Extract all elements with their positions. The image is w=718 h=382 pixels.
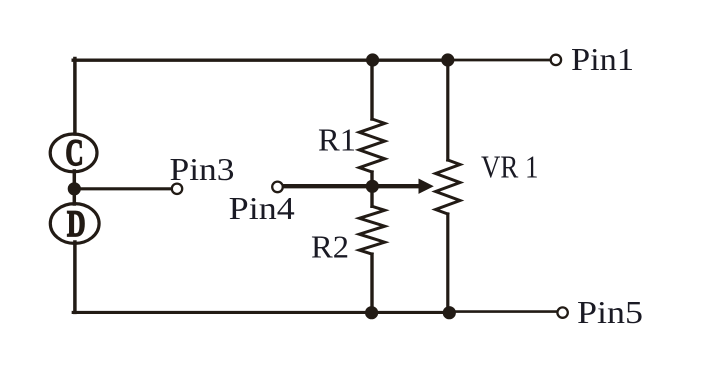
wire: Pin4 wiper lead with arrow toward VR1 bbox=[284, 184, 420, 188]
transistor element D (ellipse with letter D) bbox=[50, 204, 99, 244]
terminal: Pin4 open circle bbox=[272, 182, 283, 193]
node: bottom rail dot at R2 column bbox=[365, 306, 378, 319]
wire: R1 top lead bbox=[370, 59, 373, 120]
wire: R2 bottom lead to bottom rail bbox=[370, 254, 373, 312]
svg-text:R1: R1 bbox=[318, 121, 356, 157]
svg-text:D: D bbox=[67, 204, 86, 245]
wire: bottom rail left section (corner to VR1 node) bbox=[73, 311, 449, 314]
svg-text:Pin3: Pin3 bbox=[170, 151, 235, 187]
potentiometer VR1 zigzag bbox=[436, 160, 460, 214]
node: junction dot between C and D / Pin3 tap bbox=[68, 182, 81, 195]
wire: Pin3 lead from junction to Pin3 terminal bbox=[74, 187, 171, 190]
wire: top rail right section (VR1 node to Pin1 terminal) bbox=[448, 59, 550, 62]
wire: VR1 top lead bbox=[446, 59, 449, 161]
wire: VR1 bottom lead to bottom rail bbox=[446, 214, 449, 312]
wire: left side lower segment (D down to bottom corner) bbox=[73, 242, 77, 312]
terminal: Pin3 open circle bbox=[172, 184, 182, 194]
wire: segment between C and D through junction bbox=[73, 171, 77, 204]
terminal: Pin1 open circle bbox=[551, 55, 561, 65]
svg-text:Pin1: Pin1 bbox=[571, 41, 634, 77]
node: middle junction dot (R1/R2/Pin4) bbox=[366, 180, 379, 193]
svg-text:R2: R2 bbox=[311, 228, 349, 264]
node: top rail dot at R1 column bbox=[366, 53, 379, 66]
svg-text:Pin5: Pin5 bbox=[577, 294, 643, 330]
wire: bottom rail right section (VR1 node to Pin5 terminal) bbox=[449, 310, 557, 313]
node: bottom rail dot at VR1 column bbox=[443, 306, 456, 319]
wire: left side upper segment (corner down to C) bbox=[73, 59, 77, 135]
wire: R1 bottom lead to middle node bbox=[370, 172, 373, 186]
svg-text:Pin4: Pin4 bbox=[229, 190, 295, 226]
wire: top rail left section (corner to VR1 node) bbox=[73, 59, 448, 62]
node: top rail dot at VR1 column bbox=[441, 53, 454, 66]
svg-text:VR 1: VR 1 bbox=[481, 149, 539, 185]
wire: R2 top lead from middle node bbox=[370, 186, 373, 206]
resistor R2 zigzag bbox=[359, 206, 384, 254]
transistor element C (ellipse with letter C) bbox=[50, 134, 97, 172]
resistor R1 zigzag bbox=[359, 119, 384, 172]
svg-text:C: C bbox=[66, 133, 84, 174]
terminal: Pin5 open circle bbox=[557, 307, 567, 317]
